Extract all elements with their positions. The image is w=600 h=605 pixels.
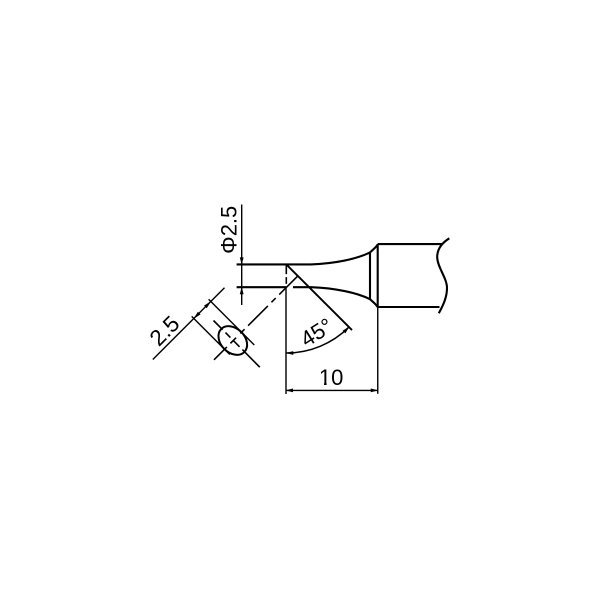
phi2.5 dimension line [241, 205, 243, 306]
bevel axis centerline [214, 276, 298, 360]
bevel face ellipse [213, 320, 253, 360]
arrow 2.5 ne [204, 301, 211, 308]
45deg angle arc [286, 327, 349, 353]
45deg cut edge line [286, 264, 352, 330]
body bottom outline [378, 306, 440, 308]
tip bottom outline left segment [237, 286, 287, 288]
arrow arc left [286, 351, 294, 355]
ellipse major centerline [214, 321, 260, 368]
body front edge [377, 244, 379, 307]
arrow phi top [240, 257, 244, 265]
arrow 2.5 sw [193, 312, 200, 319]
svg-text:Φ2.5: Φ2.5 [216, 206, 241, 254]
ext line SW of ellipse [192, 316, 230, 354]
body top outline [378, 243, 442, 245]
tip bottom outline with flare [293, 287, 378, 307]
2.5 dimension line [153, 288, 225, 360]
arrow 10 right [371, 389, 379, 393]
collar edge [369, 252, 371, 299]
arrow phi bottom [240, 287, 244, 295]
arrow arc upper [343, 327, 350, 334]
ext line NE of ellipse [209, 299, 255, 345]
hidden tip end line [285, 264, 287, 287]
white patches to remove Liberation 1 foot serif [320, 382, 325, 385]
arrow 10 left [285, 389, 293, 393]
tip top outline with flare [237, 244, 378, 264]
10 dimension line [286, 389, 378, 391]
10 dim right extension [377, 307, 379, 394]
10 dim left extension [285, 287, 287, 394]
svg-text:10: 10 [319, 365, 343, 390]
break squiggle [437, 238, 449, 313]
